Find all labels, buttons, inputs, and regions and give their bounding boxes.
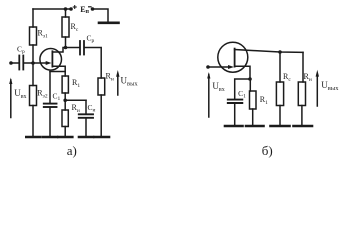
svg-text:R1: R1 [260,95,268,106]
svg-text:Cр: Cр [17,45,25,56]
svg-text:Uвых: Uвых [321,80,339,92]
svg-text:Cр: Cр [87,34,95,45]
svg-text:а): а) [67,143,77,158]
svg-text:R1: R1 [72,78,80,89]
svg-text:Uвых: Uвых [121,76,139,88]
svg-text:Cи: Cи [88,103,96,114]
svg-text:Rз1: Rз1 [38,29,49,40]
svg-text:Rн: Rн [106,71,114,82]
svg-text:Uвх: Uвх [14,88,26,100]
svg-text:б): б) [262,143,273,158]
svg-text:Rи: Rи [72,103,80,114]
svg-text:C1: C1 [238,89,246,100]
svg-text:Rз2: Rз2 [37,89,48,100]
svg-text:C1: C1 [53,92,61,103]
svg-text:Uвх: Uвх [212,81,224,93]
svg-text:Rс: Rс [71,22,79,33]
